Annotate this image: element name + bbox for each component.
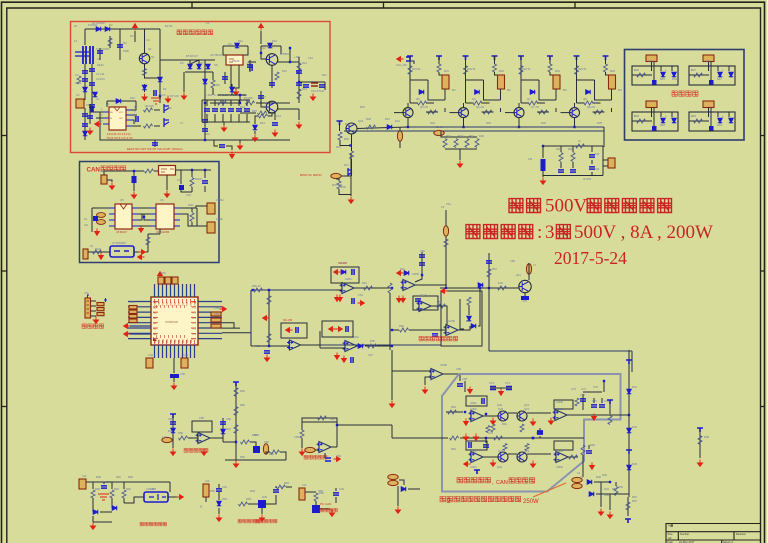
wire — [88, 251, 110, 253]
svg-text:C86: C86 — [226, 417, 231, 421]
capacitor C55 tan — [129, 319, 137, 323]
wire — [527, 412, 551, 414]
resistor R6b — [144, 124, 153, 128]
diode D25 — [475, 90, 480, 95]
svg-text:78L05: 78L05 — [232, 59, 240, 63]
wire — [147, 234, 149, 252]
svg-text:D5: D5 — [180, 61, 184, 65]
wire — [86, 481, 170, 483]
ground arrow — [139, 226, 144, 233]
wire — [248, 503, 258, 505]
ground — [216, 515, 221, 522]
wire — [324, 453, 326, 458]
svg-text:U20B: U20B — [412, 272, 419, 276]
resistor R24 — [408, 66, 412, 75]
svg-text:C8: C8 — [86, 103, 90, 107]
diode D8 — [206, 64, 211, 69]
resistor R32 — [519, 66, 523, 75]
inductor L14 — [162, 437, 172, 442]
wire — [336, 179, 339, 181]
junction — [204, 139, 206, 141]
zone tick right 1 — [761, 135, 765, 137]
junction — [239, 102, 241, 104]
ground arrow — [468, 387, 473, 394]
capacitor C7b — [154, 90, 156, 96]
svg-text:EE16 NP=40T NS=8T NAUX=8T (350: EE16 NP=40T NS=8T NAUX=8T (350uH) — [127, 147, 182, 151]
svg-text:C45: C45 — [180, 372, 185, 376]
junction — [133, 170, 135, 172]
svg-text:510K: 510K — [123, 49, 129, 53]
svg-text:D23: D23 — [486, 121, 491, 125]
connector J4 CANL — [207, 222, 215, 233]
resistor R36 — [575, 66, 579, 75]
VCC rail — [463, 56, 469, 60]
transistor Q20 — [498, 411, 508, 421]
wire — [336, 289, 342, 291]
capacitor C68 — [457, 384, 463, 386]
ground — [490, 418, 495, 425]
resistor R53 — [437, 304, 446, 308]
ground — [164, 191, 169, 198]
wire — [132, 120, 134, 124]
wire — [154, 140, 156, 147]
diode D51 — [93, 510, 98, 515]
VCC rail — [492, 56, 498, 60]
wire — [399, 141, 401, 148]
svg-text:J13: J13 — [205, 479, 210, 483]
VCC rail — [574, 56, 580, 60]
capacitor C100 — [97, 51, 103, 53]
ground — [201, 449, 206, 456]
wire — [671, 66, 673, 71]
title chinese 到 — [556, 225, 570, 239]
svg-text:R21: R21 — [444, 69, 449, 73]
wire — [520, 64, 522, 103]
op-amp U23A — [287, 340, 303, 350]
wire — [261, 508, 263, 514]
resistor R67 — [626, 502, 630, 510]
wire — [443, 374, 460, 381]
svg-text:R10: R10 — [262, 105, 267, 109]
svg-text:C2: C2 — [75, 73, 79, 77]
wire — [425, 377, 431, 385]
wire — [339, 189, 351, 195]
wire — [231, 84, 233, 95]
op-amp U22B — [429, 369, 446, 380]
svg-text:R71: R71 — [344, 163, 349, 167]
wire — [91, 315, 97, 317]
resistor R1 — [77, 76, 81, 84]
wire — [466, 102, 474, 104]
wire — [223, 45, 248, 47]
svg-text:500V , 8A , 200W: 500V , 8A , 200W — [574, 222, 713, 243]
wire — [111, 482, 113, 489]
wire — [407, 118, 409, 127]
wire — [181, 190, 192, 192]
wire — [341, 175, 351, 177]
junction — [268, 345, 270, 347]
svg-text:D50: D50 — [269, 452, 274, 456]
wire — [107, 180, 112, 182]
ground — [252, 135, 257, 142]
wire — [399, 480, 404, 485]
wire — [138, 207, 150, 209]
wire — [301, 422, 303, 430]
caption 电压跟随器 — [184, 448, 208, 452]
wire — [230, 100, 232, 106]
svg-text:U5: U5 — [120, 198, 124, 202]
svg-text:C69: C69 — [510, 259, 515, 263]
svg-text:C3 104: C3 104 — [96, 77, 105, 81]
zone tick left 3 — [2, 406, 7, 408]
capacitor C15c — [258, 96, 264, 98]
svg-text:C84: C84 — [336, 454, 341, 458]
wire — [483, 415, 498, 417]
power arrow — [286, 328, 293, 333]
svg-text:D50: D50 — [240, 455, 245, 459]
diode D41 — [627, 389, 632, 394]
svg-text:U20A: U20A — [345, 277, 352, 281]
resistor R70 — [337, 181, 341, 189]
zone tick right 2 — [761, 270, 765, 272]
bus wire long horizontal — [489, 350, 632, 352]
resistor R5 — [144, 108, 153, 112]
resistor R37 — [584, 101, 593, 105]
ground — [457, 161, 462, 168]
wire — [582, 394, 584, 410]
op-amp U30D — [554, 452, 571, 463]
wire — [397, 486, 399, 506]
wire — [218, 492, 220, 500]
svg-text:R101: R101 — [95, 247, 102, 251]
svg-text:C4: C4 — [146, 38, 150, 42]
resistor R41 — [465, 139, 469, 148]
ground — [395, 507, 400, 514]
wire — [409, 329, 446, 331]
wire — [605, 56, 607, 64]
wire — [261, 45, 281, 47]
svg-text:R83: R83 — [254, 433, 259, 437]
resistor R95 — [314, 493, 318, 501]
capacitor C19 blue — [179, 185, 184, 190]
MCU U10 body — [151, 297, 198, 345]
resistor R56 — [444, 239, 448, 247]
wire — [389, 293, 391, 350]
wire — [428, 80, 445, 100]
wire — [159, 60, 161, 96]
wire — [560, 162, 562, 168]
isolator U5 6N137 — [115, 204, 132, 229]
wire — [172, 416, 174, 448]
capacitor C16 — [219, 145, 225, 147]
wire — [593, 111, 605, 113]
svg-text:Q8 2N: Q8 2N — [587, 105, 595, 109]
wire — [91, 305, 97, 307]
diode D3 — [83, 87, 88, 92]
rail caps blue — [490, 387, 512, 390]
wire — [601, 398, 603, 403]
wire — [411, 61, 414, 64]
wire — [250, 442, 256, 446]
ground — [540, 178, 545, 185]
module PM3 outline — [632, 112, 678, 131]
feedback box row1b — [554, 400, 573, 409]
wire — [609, 402, 611, 414]
svg-text:C50: C50 — [214, 312, 219, 316]
wire — [468, 305, 470, 315]
ground — [109, 183, 114, 190]
wire — [133, 171, 135, 176]
capacitor C43 tan — [146, 358, 153, 368]
wire — [248, 61, 256, 63]
svg-text:D7: D7 — [200, 61, 204, 65]
aux power supply box outline — [71, 22, 331, 153]
wire — [500, 89, 502, 100]
wire — [261, 46, 266, 59]
svg-text:C30: C30 — [528, 159, 533, 161]
svg-text:D16: D16 — [672, 77, 677, 81]
wire — [255, 116, 258, 124]
connector PM3 header — [646, 101, 657, 108]
svg-text:STM8S105: STM8S105 — [165, 320, 179, 324]
diode PM4b — [718, 118, 723, 123]
capacitor C31 — [558, 170, 564, 172]
wire — [111, 498, 113, 508]
capacitor C110 — [537, 431, 543, 433]
resistor R29 — [473, 101, 482, 105]
wire — [572, 162, 574, 168]
resistor R64b — [486, 426, 490, 433]
wire — [260, 31, 262, 44]
wire — [602, 146, 604, 176]
ground — [299, 449, 304, 456]
capacitor C90 — [101, 486, 107, 488]
svg-text:D5 D6 D7: D5 D6 D7 — [186, 54, 198, 58]
transistor Q3 — [266, 101, 278, 113]
wire — [206, 114, 208, 122]
wire — [159, 96, 161, 103]
junction — [603, 380, 605, 382]
wire — [204, 103, 206, 140]
svg-text:U30B: U30B — [556, 400, 563, 404]
wire — [266, 495, 276, 504]
svg-text:R53: R53 — [437, 300, 442, 304]
ground — [463, 434, 468, 441]
wire — [392, 370, 431, 372]
module PM1 outline — [632, 66, 678, 85]
op-amp U30B — [553, 410, 570, 421]
wire — [577, 79, 595, 81]
wire — [524, 293, 526, 301]
U6 pins — [150, 208, 180, 226]
wire — [593, 398, 595, 403]
wire — [204, 186, 206, 192]
svg-text:C49: C49 — [214, 306, 219, 310]
MCU inner label ring top — [155, 299, 195, 303]
capacitor C93 — [333, 493, 339, 495]
wire — [154, 125, 160, 127]
label 程序下载 — [82, 324, 104, 329]
op-amp U31B — [317, 442, 334, 453]
transistor Q22 — [498, 452, 508, 462]
wire — [335, 497, 337, 503]
caption 电压基准电路 — [238, 519, 260, 523]
wire — [408, 488, 420, 490]
svg-text:R8: R8 — [216, 83, 220, 87]
wire — [611, 89, 613, 100]
resistor R113 — [494, 436, 503, 440]
ground arrow — [590, 463, 595, 470]
wire — [298, 57, 300, 103]
rail bar — [607, 400, 613, 404]
capacitor C50 tan — [211, 318, 221, 322]
svg-text:R19: R19 — [469, 134, 474, 138]
capacitor C79 — [469, 442, 471, 448]
caption 分立稳压器 — [457, 477, 491, 483]
capacitor C22 blue — [93, 216, 98, 221]
resistor PM1a — [637, 73, 646, 77]
inductor L11 — [388, 474, 398, 479]
resistor R50 — [254, 288, 263, 292]
power arrow — [334, 457, 341, 462]
svg-text:U30B: U30B — [556, 407, 563, 411]
wire — [214, 114, 216, 122]
wire — [603, 127, 605, 147]
MCU pin labels left — [153, 301, 158, 341]
capacitor C105 — [152, 143, 158, 145]
svg-text:U2: U2 — [228, 42, 232, 46]
wire — [350, 153, 352, 196]
zone tick top 2 — [383, 2, 385, 8]
wire — [567, 414, 620, 416]
wire — [154, 170, 158, 172]
capacitor C13 — [202, 120, 208, 122]
svg-text:D46: D46 — [168, 429, 173, 433]
module PM4 mid rail — [689, 120, 709, 122]
svg-text:D11: D11 — [238, 39, 243, 43]
wire — [188, 437, 198, 439]
wire — [223, 46, 226, 55]
value label texture group — [74, 21, 722, 503]
feedback box M2b — [413, 296, 438, 310]
title chinese 东儿 — [509, 199, 541, 213]
ground — [93, 317, 98, 324]
wire — [90, 111, 100, 113]
wire — [319, 331, 321, 348]
wire — [441, 131, 477, 137]
CAN transceiver U6 TJA1050 — [156, 204, 174, 229]
leader line — [533, 483, 566, 497]
svg-text:C33: C33 — [595, 154, 600, 156]
wire — [518, 118, 520, 127]
svg-text:R92: R92 — [126, 487, 131, 491]
wire — [271, 65, 273, 88]
wire — [173, 378, 175, 382]
ground — [296, 122, 301, 129]
resistor R90 — [91, 490, 95, 498]
resistor R93 — [239, 502, 248, 506]
wire — [591, 160, 593, 164]
U2 marks — [229, 59, 234, 62]
power board box outline — [625, 50, 745, 141]
wire — [138, 214, 150, 220]
junction — [252, 289, 254, 291]
wire — [132, 114, 137, 116]
ground arrow — [335, 353, 340, 360]
svg-text:R61: R61 — [502, 422, 507, 426]
svg-text:D24: D24 — [541, 121, 546, 125]
wire — [409, 64, 411, 103]
wire — [603, 159, 608, 161]
resistor R52b — [267, 334, 271, 343]
power arrow — [499, 389, 504, 396]
svg-text:PC CAN: PC CAN — [320, 502, 331, 506]
power arrow — [358, 301, 365, 306]
ground arrow — [397, 296, 402, 303]
svg-text:D2: D2 — [109, 23, 113, 27]
DC-DC module U7 B0505S — [110, 246, 134, 257]
svg-text:R41: R41 — [556, 149, 561, 151]
svg-text:R81: R81 — [240, 389, 245, 393]
resistor R23 — [437, 64, 441, 72]
wire — [91, 96, 93, 112]
wire — [392, 329, 399, 331]
wire — [351, 134, 353, 151]
wire — [628, 350, 630, 497]
wire — [438, 56, 440, 64]
ground — [131, 192, 136, 199]
capacitor C110 — [537, 432, 543, 434]
capacitor C91 — [216, 489, 222, 491]
resistor R59 — [498, 286, 507, 290]
inductor L6 — [443, 226, 448, 236]
wire — [574, 103, 576, 108]
wire — [100, 112, 290, 140]
wire — [96, 117, 103, 119]
rail bar — [625, 519, 631, 523]
feedback box M4a — [281, 323, 307, 338]
svg-text:R68: R68 — [704, 435, 709, 439]
svg-text:CANH: CANH — [216, 198, 224, 202]
resistor R85 — [318, 416, 327, 420]
svg-text:J12: J12 — [82, 474, 87, 478]
wire — [202, 121, 250, 123]
diode D3 — [83, 131, 88, 136]
junction — [485, 413, 487, 415]
capacitor C53 tan — [129, 310, 137, 314]
wire — [717, 112, 719, 117]
ground MCU — [171, 383, 176, 390]
feedback box AMP2 — [302, 418, 337, 422]
module PM2 sense pad — [709, 80, 714, 85]
wire — [100, 511, 112, 513]
feedback loop box U21B — [441, 291, 482, 346]
diode PM1c — [672, 72, 677, 77]
wire — [218, 94, 246, 96]
svg-text:R27: R27 — [691, 68, 696, 72]
ground — [90, 523, 95, 530]
VCC rail — [407, 56, 413, 60]
transistor Q10 — [346, 123, 357, 134]
resistor R32 — [350, 151, 354, 159]
resistor PM4a — [694, 119, 703, 123]
svg-text:Q22: Q22 — [497, 465, 503, 469]
wire — [539, 436, 541, 438]
svg-text:Q30: Q30 — [262, 495, 268, 499]
ground — [389, 401, 394, 408]
svg-text:Q6: Q6 — [472, 97, 476, 101]
svg-text:C7: C7 — [180, 121, 184, 125]
